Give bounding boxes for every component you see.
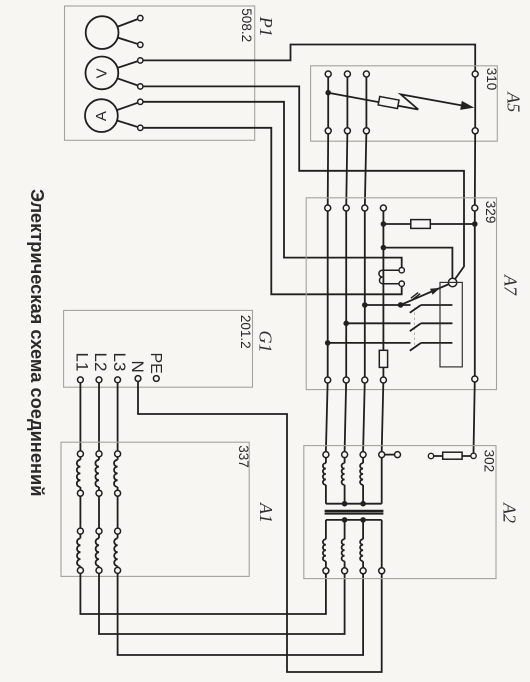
terminal X2 P1 blank-bottom <box>138 42 143 47</box>
terminal G1 L2 <box>96 377 102 383</box>
terminal A1 col3 b <box>115 490 121 496</box>
wire G1 L1 down to A1 <box>79 380 81 454</box>
wire G1 L3 down to A1 <box>117 380 119 454</box>
junction dot row 1 <box>362 302 368 308</box>
terminal A1 col1 b <box>77 490 83 496</box>
wire A5 column 3 <box>365 74 367 208</box>
terminal A1 col3 d <box>115 567 121 573</box>
pivot circle K1 <box>448 278 456 286</box>
wire A5 column 4 <box>474 74 476 208</box>
terminal A5 top 3 <box>363 71 369 77</box>
transformer secondary winding 1 <box>323 520 326 571</box>
block A5 box <box>311 66 498 141</box>
block G1 box <box>64 310 253 387</box>
terminal A7 top 5 <box>472 205 478 211</box>
terminal A2 top 1 <box>323 452 329 458</box>
transformer secondary winding 3 <box>360 520 363 571</box>
switch arm K1 <box>401 283 453 305</box>
terminal A1 col2 b <box>96 490 102 496</box>
ammeter A <box>85 99 118 132</box>
svg-text:A: A <box>93 111 110 121</box>
wire pivot feed from column 4 <box>383 248 452 283</box>
meter stub wires P1 <box>101 18 140 128</box>
terminal A7 top 1 <box>325 205 331 211</box>
wire A5 column 1 <box>327 74 330 208</box>
fault arrow device: feed line <box>328 93 418 110</box>
terminal X3 P1 V-top <box>138 58 143 63</box>
terminal A5 bottom 2 <box>344 128 350 134</box>
terminal A5 top 2 <box>344 71 350 77</box>
terminal A2 top 5 <box>395 452 401 458</box>
terminal A2 top 4 <box>379 452 385 458</box>
terminal A2 top 3 <box>360 452 366 458</box>
resistor R3 leads <box>431 455 474 457</box>
junction dot A5 col1 <box>325 90 331 96</box>
transformer core <box>325 511 384 514</box>
terminal A2 top 2 <box>342 452 348 458</box>
svg-text:L2: L2 <box>91 353 110 372</box>
coil terminal bottom <box>399 281 404 286</box>
junction dots primary bus <box>342 501 348 507</box>
reactor L2 phase chain <box>95 454 344 634</box>
svg-text:310: 310 <box>484 68 499 91</box>
terminal A7 bottom 5 <box>472 376 478 382</box>
terminal A1 col1 a <box>77 451 83 457</box>
terminal R3 right <box>471 453 476 458</box>
terminal A1 col2 a <box>96 451 102 457</box>
svg-text:201.2: 201.2 <box>238 315 253 349</box>
contact housing rectangle <box>440 282 462 367</box>
transformer primary winding 1 <box>323 455 326 504</box>
jumper terminal 4 to terminal 5 <box>382 454 398 456</box>
resistor R3 body <box>443 452 462 459</box>
terminal G1 L3 <box>115 377 121 383</box>
fault arrow resistor body <box>378 96 399 108</box>
terminal A7 top 2 <box>343 205 349 211</box>
wire A5 column 2 <box>346 74 347 208</box>
wire C: A-top terminal to K1 coil top <box>140 102 401 270</box>
terminal G1 N <box>135 376 141 382</box>
terminal A1 col1 c <box>77 528 83 534</box>
resistor R1 body <box>411 220 431 229</box>
terminal A7 bottom 4 <box>380 377 386 383</box>
terminal A1 col2 c <box>96 528 102 534</box>
svg-text:Электрическая схема соединений: Электрическая схема соединений <box>27 189 48 497</box>
svg-text:P1: P1 <box>256 16 276 37</box>
terminal A7 top 3 <box>362 205 368 211</box>
resistor R2 vertical on column 4 <box>379 350 387 367</box>
transformer secondary winding 2 <box>342 520 345 571</box>
block A2 box <box>304 446 496 579</box>
svg-text:V: V <box>93 68 110 78</box>
block P1 box <box>65 6 255 140</box>
wire G1 L2 down to A1 <box>98 380 100 454</box>
svg-text:302: 302 <box>482 450 497 473</box>
terminal A2 bottom 1 <box>323 568 329 574</box>
wire N run G1 to A2 bottom <box>138 380 382 672</box>
switch arm flash zigzag <box>411 293 420 300</box>
terminal A1 col2 d <box>96 567 102 573</box>
fault arrow zigzag and shaft <box>401 94 462 109</box>
svg-text:A5: A5 <box>504 91 524 112</box>
junction dots secondary bus <box>342 517 348 523</box>
terminal X4 P1 V-bottom <box>138 84 143 89</box>
junction dot arm base <box>398 302 404 308</box>
svg-text:A1: A1 <box>256 502 276 523</box>
wire D: A-bottom terminal to K1 coil bottom <box>140 128 401 294</box>
svg-text:337: 337 <box>236 445 251 468</box>
transformer primary winding 3 <box>360 455 363 504</box>
svg-text:L1: L1 <box>73 353 92 372</box>
terminal A2 bottom 2 <box>342 568 348 574</box>
contact row 1 <box>365 305 453 313</box>
terminal X1 P1 blank-top <box>138 15 143 20</box>
coil K1 winding <box>379 270 399 284</box>
svg-text:G1: G1 <box>256 331 276 353</box>
terminal A5 top 4 <box>472 71 478 77</box>
block A7 box <box>306 198 496 390</box>
wire B: V-bottom terminal to A7 pivot <box>140 86 464 282</box>
wire A7 column 3 <box>363 208 365 451</box>
terminal A5 bottom 4 <box>472 128 478 134</box>
contact row 3 <box>328 343 453 351</box>
wire A7 column 4 <box>382 208 384 451</box>
terminal A1 col1 d <box>77 567 83 573</box>
reactor L3 phase chain <box>114 454 363 655</box>
svg-text:N: N <box>128 361 147 373</box>
terminal A7 top 4 <box>380 205 386 211</box>
terminal A5 bottom 1 <box>325 128 331 134</box>
svg-text:L3: L3 <box>110 353 129 372</box>
contact linkage dashed line <box>414 308 416 348</box>
junction dot R1 left <box>381 221 387 227</box>
terminal A1 col3 c <box>115 528 121 534</box>
svg-text:A7: A7 <box>501 274 521 296</box>
wire A: V-top terminal to A5 right column <box>140 45 475 75</box>
svg-text:329: 329 <box>483 201 498 224</box>
junction dot row 3 <box>325 340 331 346</box>
block A1 box <box>61 442 249 576</box>
svg-text:A2: A2 <box>500 502 520 523</box>
svg-text:508.2: 508.2 <box>239 8 254 42</box>
transformer primary winding 2 <box>342 455 345 504</box>
terminal A7 bottom 2 <box>343 377 349 383</box>
terminal A7 bottom 1 <box>325 377 331 383</box>
wire A7 column 2 <box>345 208 347 451</box>
junction dot row 2 <box>343 321 349 327</box>
wire A7 column 5 right <box>474 208 475 453</box>
terminal A7 bottom 3 <box>362 377 368 383</box>
fault arrowhead <box>460 101 474 110</box>
primary star bus <box>326 455 382 504</box>
terminal G1 L1 <box>78 377 84 383</box>
secondary star bus <box>326 520 382 571</box>
reactor L1 phase chain <box>77 454 326 614</box>
wire A7 column 1 <box>326 208 328 451</box>
junction dot R1 right <box>472 221 478 227</box>
contact row 2 <box>346 323 452 331</box>
coil terminal top <box>399 268 404 273</box>
meter blank circle <box>86 16 119 49</box>
switch arm arrowhead <box>430 288 440 295</box>
voltmeter V <box>86 57 119 90</box>
junction dot pivot feed <box>381 245 387 251</box>
terminal A1 col3 a <box>115 451 121 457</box>
terminal G1 PE <box>153 376 159 382</box>
terminal X6 P1 A-bottom <box>138 125 143 130</box>
terminal A2 bottom 4 <box>379 568 385 574</box>
terminal A5 bottom 3 <box>363 128 369 134</box>
resistor R1 wire k4-k5 <box>383 223 474 225</box>
terminal A5 top 1 <box>325 71 331 77</box>
svg-text:PE: PE <box>147 353 164 374</box>
terminal X5 P1 A-top <box>138 99 143 104</box>
terminal A2 bottom 3 <box>360 568 366 574</box>
terminal R3 left <box>428 453 433 458</box>
